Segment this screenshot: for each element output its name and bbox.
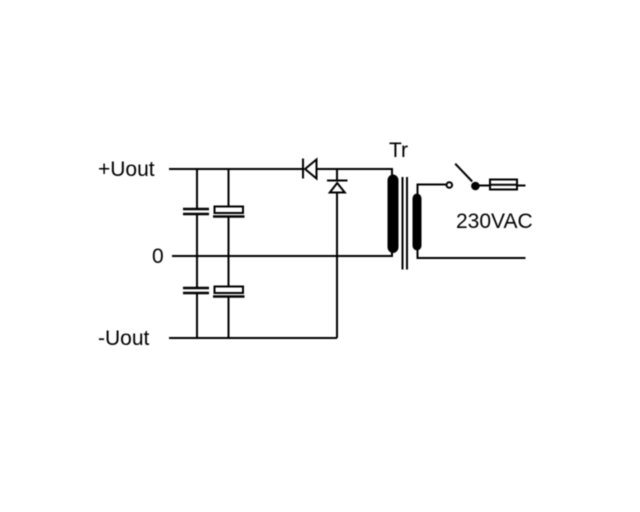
wire switch to fuse	[480, 185, 491, 187]
transformer Tr secondary winding	[388, 175, 399, 254]
diode D2	[327, 181, 348, 193]
wire capacitor column 1	[196, 169, 198, 338]
svg-text:230VAC: 230VAC	[456, 210, 533, 233]
node label +Uout	[98, 158, 155, 181]
node label 0	[152, 245, 164, 268]
wire primary top lead	[418, 185, 446, 195]
capacitor C4	[213, 287, 245, 297]
wire 0 rail	[172, 253, 392, 257]
capacitor C2	[213, 207, 245, 217]
wire +Uout rail	[169, 169, 392, 175]
wire primary bottom lead	[418, 250, 526, 258]
transformer label Tr	[389, 139, 408, 162]
switch S1 contact dot	[471, 182, 480, 191]
transformer Tr primary winding	[413, 194, 422, 251]
svg-text:Tr: Tr	[389, 139, 408, 162]
wire capacitor column 2	[228, 169, 230, 338]
label 230VAC	[456, 210, 533, 233]
fuse F1	[490, 180, 517, 190]
switch S1 lever	[455, 164, 472, 182]
svg-text:-Uout: -Uout	[98, 327, 150, 350]
capacitor C1	[183, 209, 209, 214]
switch S1 open terminal	[447, 182, 453, 188]
diode D1	[303, 159, 317, 179]
wire D1 junction to D2 stub	[336, 169, 338, 180]
wire -Uout rail	[169, 337, 337, 339]
node label -Uout	[98, 327, 150, 350]
transformer core	[403, 177, 408, 270]
wire D2 to -Uout rail	[336, 193, 338, 339]
capacitor C3	[183, 288, 209, 293]
wire fuse to line end	[517, 185, 526, 187]
svg-text:+Uout: +Uout	[98, 158, 155, 181]
svg-text:0: 0	[152, 245, 164, 268]
